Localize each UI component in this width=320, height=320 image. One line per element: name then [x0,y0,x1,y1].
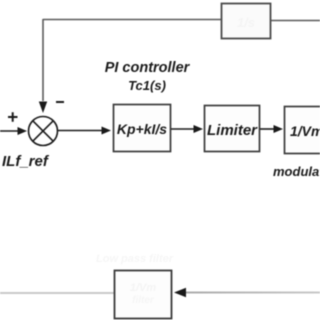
wire: Limiter to 1/Vm block [260,125,283,133]
svg-text:filter: filter [132,295,155,306]
wire: feedback horizontal line from top box to vertical drop [43,19,221,21]
svg-text:ILf_ref: ILf_ref [2,153,50,170]
label: PI controller [105,60,191,76]
label: plus sign [8,112,18,122]
block: 1/Vm (cut off at right edge) [285,107,320,154]
svg-text:1/Vm: 1/Vm [130,282,157,294]
wire: vertical feedback drop into summing junction [39,19,47,113]
svg-text:1/s: 1/s [237,15,255,30]
label: ILf_ref [2,153,50,170]
label: minus sign [56,101,64,103]
block: top feedback box (faint contents) [222,4,271,39]
svg-text:modulator: modulator [273,164,320,179]
svg-text:Kp+kI/s: Kp+kI/s [117,121,167,137]
block: Limiter [205,106,260,152]
svg-text:Limiter: Limiter [207,122,258,139]
block: PI controller Kp+kI/s [114,105,171,152]
wire: bottom right line with left-pointing arrow [174,288,320,297]
svg-text:Low pass filter: Low pass filter [96,253,174,265]
svg-text:Tc1(s): Tc1(s) [128,78,166,93]
svg-text:PI controller: PI controller [105,60,191,76]
label: Tc1(s) [128,78,166,93]
label: modulator (cut off) [273,164,320,179]
node: summing junction (circle with X) [29,117,58,146]
wire: summing junction to PI block [58,127,112,135]
svg-text:1/Vm: 1/Vm [290,123,320,139]
wire: PI block to Limiter [171,125,203,133]
label: faint ghost text above bottom box [96,253,174,265]
wire: feedback line from right edge into top box [271,20,320,22]
block: bottom feedback box (faint contents) [115,271,172,319]
wire: bottom left gray line [0,292,114,294]
wire: input arrow into summing junction [0,127,27,135]
